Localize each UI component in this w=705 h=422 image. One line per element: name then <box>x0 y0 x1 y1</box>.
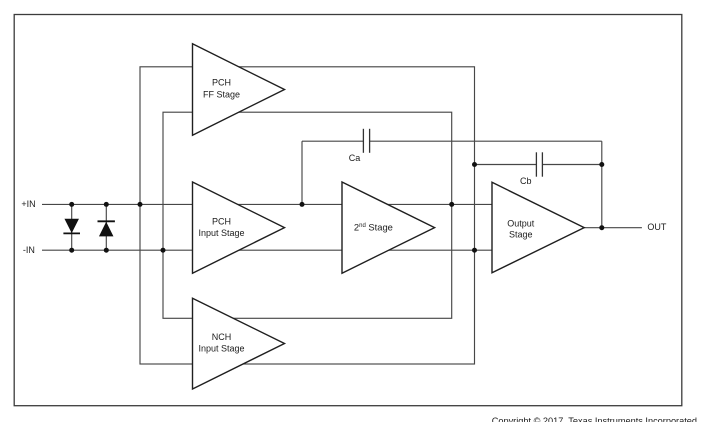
amplifier NCH Input Stage <box>193 298 285 389</box>
junction +IN / outer loop left <box>138 202 143 207</box>
wire +IN rail (y=204.4) <box>42 203 492 205</box>
junction -IN / inner loop left <box>161 248 166 253</box>
outer feedback loop wire (big rectangle) <box>140 67 475 364</box>
diode D2 (clamp, cathode up) <box>98 221 115 236</box>
junction Cb right / output column <box>599 162 604 167</box>
svg-text:Stage: Stage <box>509 229 533 239</box>
svg-text:Output: Output <box>507 219 535 229</box>
wire output node vertical column <box>601 141 603 228</box>
wire OUT lead <box>584 227 642 229</box>
svg-text:Input Stage: Input Stage <box>198 343 244 353</box>
wire -IN rail (y=250.2) <box>42 249 492 251</box>
svg-text:Ca: Ca <box>349 153 361 163</box>
label Ca <box>349 153 361 163</box>
wire Ca top run right of capacitor to output node column <box>370 140 602 142</box>
node +IN label <box>21 199 35 209</box>
amplifier Output Stage <box>492 182 584 272</box>
svg-text:FF Stage: FF Stage <box>203 89 240 99</box>
svg-text:-IN: -IN <box>23 245 35 255</box>
junction Cb left / outer loop right <box>472 162 477 167</box>
svg-text:PCH: PCH <box>212 217 231 227</box>
copyright note <box>492 416 697 422</box>
junction -IN / D1 <box>69 248 74 253</box>
amplifier PCH FF Stage <box>193 44 285 135</box>
wire Ca stem vertical <box>301 141 303 204</box>
capacitor Ca plates <box>363 129 369 153</box>
svg-text:NCH: NCH <box>212 332 232 342</box>
inner feedback loop wire (inner rectangle) <box>163 112 452 318</box>
label Cb <box>520 176 532 186</box>
junction -IN / D2 <box>104 248 109 253</box>
wire Cb run right of capacitor <box>542 164 601 166</box>
svg-text:PCH: PCH <box>212 78 231 88</box>
wire Cb run left of capacitor <box>475 164 537 166</box>
svg-text:Cb: Cb <box>520 176 532 186</box>
capacitor Cb plates <box>536 152 542 176</box>
svg-text:Input Stage: Input Stage <box>198 228 244 238</box>
wire Ca top run left of capacitor <box>302 140 363 142</box>
svg-text:+IN: +IN <box>21 199 35 209</box>
junction top rail / inner loop right <box>449 202 454 207</box>
junction +IN / D2 <box>104 202 109 207</box>
svg-text:OUT: OUT <box>647 222 667 232</box>
svg-text:Copyright © 2017, Texas Instru: Copyright © 2017, Texas Instruments Inco… <box>492 416 697 422</box>
amplifier 2nd Stage <box>342 182 435 273</box>
wire diode branch D2 vertical <box>105 204 107 250</box>
node -IN label <box>23 245 35 255</box>
junction bottom rail / outer loop right <box>472 248 477 253</box>
wire diode branch D1 vertical <box>71 204 73 250</box>
diode D1 (clamp, cathode down) <box>63 219 80 233</box>
junction +IN / D1 <box>69 202 74 207</box>
node OUT label <box>647 222 667 232</box>
junction Ca stem / top rail <box>300 202 305 207</box>
amplifier PCH Input Stage <box>193 182 285 273</box>
junction OUT node <box>599 225 604 230</box>
